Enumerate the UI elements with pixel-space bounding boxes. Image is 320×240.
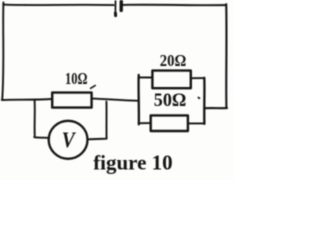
wire right vertical (225, 4, 227, 108)
svg-text:figure 10: figure 10 (93, 151, 173, 175)
svg-text:V: V (62, 127, 77, 152)
wire voltmeter right stub (88, 138, 107, 141)
wire between 10ohm resistor and parallel block (92, 99, 138, 101)
wire left vertical (2, 2, 3, 99)
battery cell long plate ink blob (114, 13, 117, 16)
wire parallel-block right bar (203, 78, 206, 124)
svg-text:20Ω: 20Ω (160, 51, 187, 70)
wire voltmeter left drop (34, 101, 36, 137)
wire parallel-block left bar (137, 75, 140, 124)
svg-text:50Ω: 50Ω (154, 91, 187, 111)
wire stub to 50ohm resistor left (140, 122, 151, 124)
resistor R3 50ohm box (151, 115, 188, 131)
battery cell long plate (114, 1, 116, 13)
svg-text:10Ω: 10Ω (65, 69, 88, 88)
wire stub to 20ohm resistor left (139, 76, 152, 78)
stray ink dot near 50ohm label (198, 97, 199, 100)
voltmeter V1 circle (49, 121, 88, 159)
wire stub from 20ohm resistor right (191, 77, 204, 79)
wire voltmeter right riser (105, 102, 107, 139)
resistor R1 10ohm box (52, 93, 91, 108)
wire top left segment (3, 4, 113, 7)
wire voltmeter left stub (34, 136, 49, 139)
wire left middle horizontal (2, 99, 52, 100)
resistor R2 20ohm box (152, 71, 190, 89)
stray ink mark near R1 (91, 86, 96, 89)
wire stub from 50ohm resistor right (188, 122, 205, 124)
wire top right segment (123, 4, 227, 7)
battery cell short thick plate (119, 2, 123, 11)
wire parallel-block output to right vertical (204, 107, 227, 109)
